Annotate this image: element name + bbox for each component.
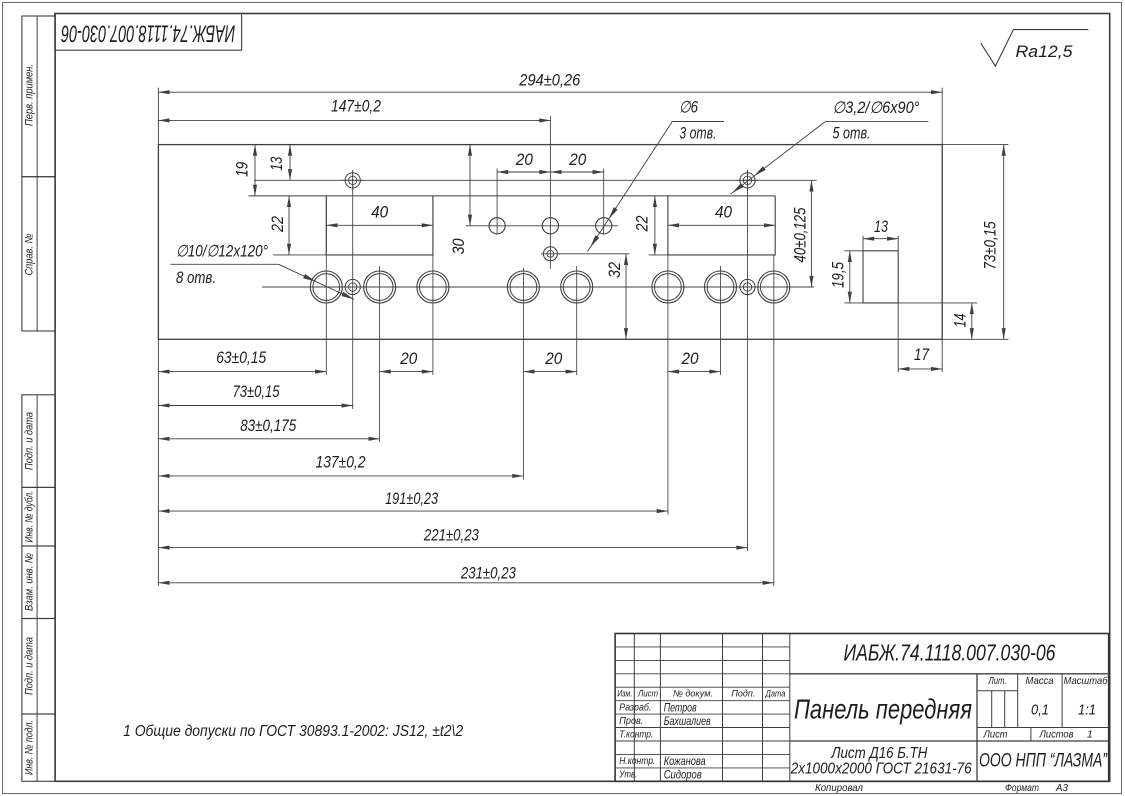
svg-text:Лист: Лист: [983, 729, 1008, 741]
extension from middle small hole for 32 dim: [557, 253, 629, 255]
top-left designation box (rotated 180): [55, 14, 242, 51]
dim 147: [158, 119, 550, 121]
svg-text:294±0,26: 294±0,26: [518, 71, 581, 89]
dim 83: [158, 438, 379, 440]
svg-text:73±0,15: 73±0,15: [982, 221, 1000, 270]
phi6 hole: [596, 218, 612, 234]
extension line x=720.5: [720, 266, 722, 375]
svg-text:17: 17: [914, 346, 930, 364]
svg-text:Лит.: Лит.: [988, 675, 1007, 687]
svg-text:Т.контр.: Т.контр.: [619, 728, 653, 740]
extension line x=523.4: [522, 268, 524, 480]
dim 13 right cutout: [863, 238, 898, 240]
svg-text:8 отв.: 8 отв.: [176, 269, 216, 287]
svg-text:Сидоров: Сидоров: [664, 768, 702, 782]
leader d6 lines: [672, 121, 724, 123]
small countersunk hole d3.2/d6 middle: [543, 247, 557, 261]
dim 20 bottom 1: [380, 371, 433, 373]
big countersunk hole 1 d10/d12: [310, 271, 342, 303]
dim 22 right: [654, 196, 656, 255]
svg-text:Инв. № дубл.: Инв. № дубл.: [24, 491, 36, 543]
svg-text:Изм.: Изм.: [617, 688, 632, 699]
dim 231: [158, 582, 773, 584]
extension line x=747.5: [747, 171, 749, 552]
left strip box: Vzam. inv. No: [22, 546, 55, 619]
right cutout top-left extension for 19.5 dim: [844, 250, 863, 252]
panel outline: [158, 145, 942, 340]
svg-text:13: 13: [268, 156, 286, 171]
extension line x=667.9: [667, 255, 669, 515]
left strip box: Sprav. No: [22, 177, 55, 331]
svg-text:20: 20: [515, 151, 534, 169]
svg-text:22: 22: [634, 216, 652, 233]
title block right part lines: [790, 673, 1109, 675]
svg-text:191±0,23: 191±0,23: [385, 490, 439, 508]
panel right edge extension up: [941, 88, 943, 145]
svg-text:Масштаб: Масштаб: [1064, 675, 1109, 687]
svg-text:Бахшалиев: Бахшалиев: [664, 714, 711, 728]
dim 221: [158, 547, 747, 549]
svg-text:221±0,23: 221±0,23: [423, 526, 479, 544]
panel left edge extension full (dims): [157, 88, 159, 145]
svg-text:Лист: Лист: [637, 688, 658, 699]
svg-text:Подп. и дата: Подп. и дата: [24, 637, 36, 695]
svg-text:1 Общие допуски по ГОСТ 30893.: 1 Общие допуски по ГОСТ 30893.1-2002: JS…: [123, 723, 463, 740]
line through countersunk holes top row: [254, 179, 817, 181]
extension line x=432.9: [432, 196, 434, 375]
dim 63: [158, 371, 326, 373]
svg-text:30: 30: [450, 238, 468, 255]
svg-text:19: 19: [233, 162, 251, 177]
svg-text:73±0,15: 73±0,15: [233, 383, 281, 401]
title block outline: [615, 634, 1109, 782]
big countersunk hole 3 d10/d12: [417, 271, 449, 303]
dim 13 vertical: [289, 145, 291, 181]
svg-text:Копировал: Копировал: [815, 782, 863, 794]
svg-text:40: 40: [715, 204, 733, 222]
svg-text:32: 32: [606, 262, 624, 278]
svg-text:Кожанова: Кожанова: [664, 754, 706, 768]
dim 17: [898, 368, 942, 370]
svg-text:147±0,2: 147±0,2: [331, 97, 381, 115]
svg-text:231±0,23: 231±0,23: [460, 565, 516, 583]
extension line x=352.7: [352, 171, 354, 410]
svg-text:14: 14: [952, 314, 970, 328]
svg-text:19,5: 19,5: [830, 261, 848, 288]
leader d10/d12 lines: [170, 263, 278, 265]
right rect bottom extension for 22 dim: [649, 254, 668, 256]
left strip box: Inv. No dubl.: [22, 487, 55, 546]
svg-text:20: 20: [568, 151, 587, 169]
leader d3.2/d6 lines: [825, 121, 928, 123]
svg-text:∅3,2/∅6х90°: ∅3,2/∅6х90°: [833, 99, 920, 117]
big countersunk hole 4 d10/d12: [507, 271, 539, 303]
dim 22 left: [288, 196, 290, 255]
svg-text:ИАБЖ.74.1118.007.030-06: ИАБЖ.74.1118.007.030-06: [61, 19, 235, 46]
svg-text:20: 20: [399, 350, 418, 368]
svg-text:40: 40: [371, 204, 389, 222]
dim 20 bottom 3: [668, 371, 721, 373]
svg-text:Разраб.: Разраб.: [619, 701, 651, 713]
dim 20 bottom 2: [523, 371, 576, 373]
svg-text:∅10/∅12х120°: ∅10/∅12х120°: [176, 243, 268, 261]
big countersunk hole 5 d10/d12: [561, 271, 593, 303]
svg-text:Петров: Петров: [664, 700, 697, 714]
svg-text:22: 22: [269, 216, 287, 233]
left strip box: Podp. i data 1: [22, 395, 55, 488]
right cutout verticals extended for 13 and 17 dims: [862, 236, 864, 251]
small countersunk hole d3.2/d6 top row: [740, 173, 755, 188]
dim 73: [158, 405, 352, 407]
dim 40 inside left rect: [326, 224, 433, 226]
svg-text:Взам. инв. №: Взам. инв. №: [24, 553, 36, 611]
svg-text:∅6: ∅6: [679, 99, 699, 117]
svg-text:Масса: Масса: [1026, 675, 1054, 687]
small countersunk hole d3.2/d6 on big hole row: [740, 279, 755, 294]
big countersunk hole 6 d10/d12: [652, 271, 684, 303]
svg-text:Ra12,5: Ra12,5: [1016, 42, 1074, 61]
dim 32: [625, 254, 627, 339]
big countersunk hole 7 d10/d12: [705, 271, 737, 303]
cutout rectangle left 40x22: [326, 196, 433, 255]
title block left columns verticals: [633, 634, 635, 782]
extension phi6 right hole up: [603, 168, 605, 233]
svg-text:5 отв.: 5 отв.: [833, 125, 871, 143]
svg-text:137±0,2: 137±0,2: [316, 454, 366, 472]
svg-text:Перв. примен.: Перв. примен.: [24, 64, 36, 126]
extension line x=576.7: [576, 266, 578, 375]
right cutout bottom line extended for 14 dim: [844, 302, 977, 304]
dim 14: [971, 303, 973, 339]
left strip box: Podp. i data 2: [22, 619, 55, 715]
svg-text:Утв.: Утв.: [619, 769, 638, 781]
svg-text:Подп.: Подп.: [731, 688, 755, 699]
svg-text:№ докум.: № докум.: [673, 688, 713, 699]
dim 40 inside right rect: [668, 224, 775, 226]
phi6 hole: [489, 218, 505, 234]
svg-text:0,1: 0,1: [1031, 702, 1049, 719]
center line middle group: [549, 116, 551, 269]
extension phi6 left hole up: [496, 168, 498, 233]
svg-text:ИАБЖ.74.1118.007.030-06: ИАБЖ.74.1118.007.030-06: [844, 640, 1056, 666]
panel right edge extension down for 17 dim: [941, 339, 943, 372]
svg-text:3 отв.: 3 отв.: [679, 125, 716, 143]
dim 137: [158, 475, 523, 477]
svg-text:Панель передняя: Панель передняя: [794, 694, 972, 725]
big countersunk hole 8 d10/d12: [758, 271, 790, 303]
svg-text:ООО НПП “ЛАЗМА”: ООО НПП “ЛАЗМА”: [979, 751, 1108, 772]
extension line x=326.3: [325, 196, 327, 375]
left rect bottom extension for 22 dim: [273, 254, 326, 256]
svg-text:Дата: Дата: [765, 688, 786, 699]
svg-text:Инв. № подл.: Инв. № подл.: [24, 720, 36, 775]
dim 191: [158, 510, 668, 512]
panel top edge extension right for 73 dim: [942, 144, 1008, 146]
big countersunk hole 2 d10/d12: [364, 271, 396, 303]
svg-text:Пров.: Пров.: [619, 715, 643, 727]
svg-text:1: 1: [1087, 729, 1093, 741]
svg-text:Формат: Формат: [1005, 782, 1039, 794]
surface finish Ra12.5 mark: [981, 30, 1089, 67]
svg-text:Листов: Листов: [1039, 729, 1074, 741]
extension line x=379.6: [379, 266, 381, 442]
svg-text:2х1000х2000 ГОСТ 21631-76: 2х1000х2000 ГОСТ 21631-76: [790, 760, 972, 777]
extension line x=773.8: [773, 255, 775, 586]
dim 294: [158, 91, 942, 93]
panel bottom edge extension right for 73 dim: [942, 338, 1008, 340]
dim 19 vertical: [254, 145, 256, 196]
svg-text:83±0,175: 83±0,175: [240, 417, 297, 435]
left strip box: Perv. primen: [22, 16, 55, 177]
dim 40 pm 0.125: [811, 180, 813, 287]
svg-text:Подп. и дата: Подп. и дата: [24, 412, 36, 470]
svg-text:40±0,125: 40±0,125: [792, 207, 810, 263]
dim 20 20 top: [497, 171, 550, 173]
line through phi6 holes: [466, 225, 618, 227]
dim 19.5: [849, 251, 851, 303]
svg-text:13: 13: [874, 218, 889, 236]
svg-text:Справ. №: Справ. №: [24, 233, 36, 275]
dim 73 right: [1003, 145, 1005, 340]
line at 19 from top edge: [248, 195, 775, 197]
small countersunk hole d3.2/d6 on big hole row: [345, 279, 360, 294]
left strip box: Inv. No podl.: [22, 714, 55, 781]
svg-text:63±0,15: 63±0,15: [216, 349, 267, 367]
svg-text:20: 20: [681, 350, 700, 368]
cutout rectangle right 40x22: [668, 196, 775, 255]
dim 30: [469, 145, 471, 226]
small countersunk hole d3.2/d6 top row: [345, 173, 360, 188]
svg-text:20: 20: [544, 350, 563, 368]
line through big countersunk holes row: [262, 286, 814, 288]
svg-text:А3: А3: [1055, 782, 1068, 794]
right side cutout rect 13x19.5: [863, 251, 898, 303]
svg-text:Н.контр.: Н.контр.: [619, 755, 655, 767]
phi6 hole: [542, 218, 558, 234]
svg-text:1:1: 1:1: [1078, 702, 1096, 719]
title block left rows: [615, 646, 790, 648]
